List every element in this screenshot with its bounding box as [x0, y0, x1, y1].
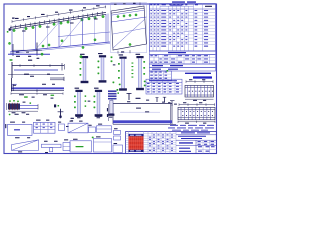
- part plate 11 with green label: [73, 139, 78, 140]
- green label left of posts: [51, 95, 55, 96]
- red stamp footer bar: [129, 150, 144, 152]
- crane beam section marks: [156, 98, 158, 102]
- red stamp body: [129, 136, 144, 150]
- post top end plate: [99, 55, 106, 57]
- truss panel text labels: [22, 31, 26, 32]
- crane beam right end: [169, 104, 171, 125]
- green node markers on bottom chord: [42, 45, 44, 47]
- crane beam inner text: [136, 108, 141, 109]
- title block outer border: [126, 132, 217, 154]
- bottom chord plan right end ticks: [61, 63, 63, 71]
- bottom-left marks under post E: [71, 118, 74, 119]
- part small stack 7: [114, 128, 118, 129]
- roof plan inner chord lines: [111, 8, 144, 13]
- part tee 9: [44, 141, 48, 142]
- post top end plate: [75, 90, 82, 92]
- left beam dimension line: [11, 93, 63, 95]
- post shaft double line: [100, 57, 102, 80]
- post label: [80, 54, 85, 55]
- green weld marks on post: [80, 62, 82, 64]
- plate detail 1 dimension below: [185, 98, 214, 100]
- left beam labels: [14, 85, 17, 86]
- green weld marks on post: [74, 96, 76, 98]
- truss right end post: [107, 14, 109, 43]
- green mark near beam left: [111, 98, 113, 100]
- support detail text: [16, 52, 19, 53]
- truss web diagonal member 1: [36, 22, 60, 49]
- post label: [119, 54, 124, 55]
- part gusset 4: [70, 121, 74, 122]
- axis mark near left border: [9, 28, 11, 31]
- isolated mark right of splice: [54, 104, 56, 107]
- green weld marks on post: [118, 63, 120, 65]
- truss dimension text labels: [15, 18, 19, 19]
- parts table header grid: [150, 8, 216, 10]
- green node markers on top chord: [13, 29, 15, 31]
- post shaft double line: [82, 58, 84, 81]
- splice assembly dimension below: [8, 110, 38, 112]
- crane beam section mark anchor: [128, 93, 130, 100]
- title block document name cell: [176, 134, 217, 136]
- title block revision grid left: [126, 133, 177, 135]
- post label: [75, 88, 80, 89]
- post label: [98, 53, 103, 54]
- notes row 2: [150, 68, 216, 72]
- left beam bottom line: [11, 90, 64, 92]
- truss left dimension line: [12, 49, 42, 51]
- part plate 10: [64, 139, 68, 140]
- truss web diagonal member 2: [59, 19, 83, 47]
- roof plan bracing diagonal: [113, 19, 145, 48]
- order sub-table: [150, 71, 172, 80]
- green mark right of detail G: [117, 92, 119, 94]
- part small 5: [89, 125, 92, 126]
- post shaft double line: [77, 92, 79, 114]
- splice assembly green markers: [9, 100, 11, 102]
- title block bottom text: [179, 151, 191, 152]
- drawing set label line 2 bold: [193, 76, 212, 78]
- notes strip: [150, 64, 216, 68]
- parts table cell text: [150, 9, 152, 12]
- bottom chord plan view bottom edge: [14, 69, 58, 71]
- truss dimension line above top chord: [12, 7, 106, 22]
- part plate 1: [10, 122, 15, 123]
- roof plan lower bracing diagonal: [113, 28, 146, 34]
- parts table title: [172, 1, 185, 2]
- part gusset 8: [15, 137, 20, 138]
- roof plan outer box: [111, 3, 147, 53]
- post bottom end plate: [75, 114, 83, 116]
- part plate 12: [96, 136, 101, 137]
- roof plan bottom ticks and labels: [117, 51, 119, 54]
- post bottom end plate: [99, 80, 107, 82]
- assembly marks table: [150, 54, 216, 64]
- title block top strip text: [181, 132, 195, 133]
- title block lit-mass-scale grid: [195, 140, 197, 153]
- small green marks between posts B and C: [111, 56, 113, 58]
- green weld marks on post: [98, 61, 100, 63]
- post top end plate: [95, 90, 102, 92]
- post shaft double line: [138, 58, 140, 88]
- green marks below posts C and D: [113, 82, 115, 84]
- post shaft double line: [96, 92, 98, 114]
- green weld marks on post: [94, 96, 96, 98]
- plan view labels: [28, 60, 32, 61]
- bottom chord plan tick marks: [19, 64, 21, 67]
- title block sheet row: [196, 149, 217, 151]
- left beam left end verticals: [11, 78, 13, 92]
- post E foot marks: [76, 116, 82, 118]
- red stamp header bar: [129, 134, 144, 136]
- green weld column between lower posts: [85, 95, 87, 97]
- part channel 2: [36, 120, 41, 121]
- post F foot marks: [96, 116, 102, 118]
- crane beam left dimension marks: [107, 104, 109, 121]
- left beam corner marks: [12, 83, 17, 85]
- plate detail 2 dimension line above: [179, 104, 215, 106]
- crane beam left end: [112, 104, 114, 125]
- plate detail 2 body: [178, 107, 215, 119]
- crane beam top line: [111, 103, 172, 105]
- splice left tick: [6, 103, 8, 110]
- green marker lower roof plan: [129, 43, 131, 45]
- plate detail 1 body: [185, 85, 214, 97]
- plate detail 2 bracket left: [171, 101, 173, 106]
- part stub 3: [58, 122, 61, 123]
- post top end plate: [119, 57, 126, 59]
- plan view lower edge line: [8, 74, 64, 76]
- title block revision cell text: [153, 134, 155, 137]
- truss web vertical members: [11, 29, 13, 52]
- bolts table: [146, 79, 182, 94]
- splice assembly dense plate cluster: [8, 104, 20, 110]
- post bottom end plate: [81, 81, 89, 83]
- left beam web band: [11, 87, 64, 89]
- green markers on roof plan: [117, 16, 119, 18]
- post bottom end plate: [136, 88, 144, 90]
- post label: [136, 54, 141, 55]
- roof plan mid purlin line: [111, 17, 146, 22]
- notes text above title block line 1: [170, 124, 178, 127]
- anchor bolt symbol: [60, 109, 62, 118]
- post bottom end plate: [119, 88, 127, 90]
- part small 13: [114, 143, 118, 144]
- crane beam inner slope line: [120, 111, 160, 113]
- green marker at support line: [41, 53, 43, 55]
- left beam note text: [24, 96, 28, 97]
- plate detail 2 dimension below: [178, 121, 215, 123]
- truss bottom chord double line: [10, 42, 110, 52]
- left beam rail double line: [50, 77, 64, 79]
- green weld mark near table: [167, 70, 169, 72]
- post bottom end plate: [95, 114, 103, 116]
- parts table row lines: [150, 11, 216, 13]
- stacked plate detail G post: [110, 100, 113, 113]
- post shaft double line: [121, 59, 123, 89]
- truss intermediate web verticals: [23, 27, 25, 51]
- parts table header text: [150, 3, 152, 6]
- green marks left of bolts table: [144, 81, 146, 83]
- splice lower note text: [9, 114, 11, 115]
- title block stage row: [176, 145, 217, 147]
- bottom chord plan view left end: [11, 62, 13, 78]
- notes text above title block line 2: [168, 127, 175, 130]
- plate detail 1 bolt dots: [189, 91, 190, 92]
- roof plan top slanted edge: [111, 6, 146, 50]
- green weld marks on post: [143, 61, 145, 63]
- post top end plate: [81, 56, 88, 58]
- sheet frame border: [4, 4, 217, 154]
- green weld symbol column between posts C and D: [131, 63, 133, 64]
- plate detail 1 dimension line above: [186, 81, 213, 83]
- truss left support detail line: [8, 53, 50, 55]
- truss top chord double line with purlin ticks: [10, 12, 106, 27]
- crane beam bottom flange: [113, 120, 172, 123]
- bottom chord plan view top edge: [12, 65, 64, 67]
- crane beam labels above: [136, 98, 141, 99]
- parts table outer border: [150, 4, 216, 51]
- left margin rotated label: [5, 124, 6, 128]
- roof plan dimension text: [114, 4, 117, 5]
- truss lower stringer line: [58, 32, 110, 37]
- post label: [94, 88, 99, 89]
- assembly marks table header strip: [150, 51, 216, 54]
- post top end plate: [136, 56, 143, 58]
- plate detail 2 bolt dots: [182, 111, 183, 112]
- stacked plate detail G bars: [108, 90, 117, 92]
- notes text above title block line 3: [172, 129, 181, 132]
- part plate 6: [98, 124, 102, 125]
- drawing set label line 1: [185, 73, 211, 74]
- splice assembly arm double line: [20, 104, 38, 106]
